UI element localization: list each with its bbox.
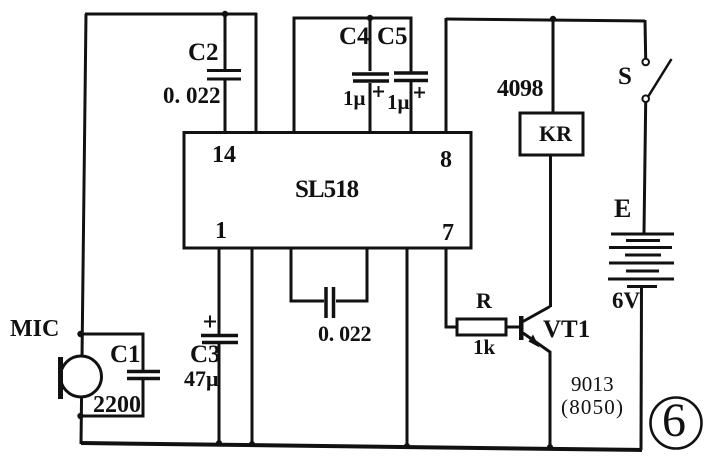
svg-text:6V: 6V: [612, 288, 641, 313]
svg-text:SL518: SL518: [295, 176, 359, 203]
svg-text:1: 1: [215, 218, 227, 244]
svg-text:E: E: [614, 194, 631, 223]
svg-text:VT1: VT1: [543, 316, 590, 343]
svg-text:C3: C3: [190, 341, 221, 368]
svg-text:(8050): (8050): [561, 395, 624, 419]
svg-text:1μ: 1μ: [343, 86, 366, 110]
svg-text:14: 14: [212, 142, 236, 168]
svg-text:C2: C2: [188, 39, 219, 66]
svg-text:KR: KR: [539, 121, 573, 146]
svg-text:9013: 9013: [571, 372, 614, 396]
svg-text:8: 8: [440, 147, 452, 173]
svg-text:2200: 2200: [93, 392, 141, 418]
svg-text:S: S: [618, 63, 632, 90]
svg-text:47μ: 47μ: [184, 366, 219, 391]
svg-text:C5: C5: [377, 23, 408, 50]
svg-text:6: 6: [662, 394, 686, 447]
svg-text:1k: 1k: [473, 335, 496, 359]
svg-text:R: R: [476, 288, 493, 313]
svg-text:MIC: MIC: [10, 316, 59, 342]
svg-text:C4: C4: [339, 23, 370, 50]
svg-text:7: 7: [442, 220, 454, 246]
svg-text:C1: C1: [110, 341, 141, 368]
svg-text:4098: 4098: [497, 76, 544, 102]
svg-text:1μ: 1μ: [387, 90, 410, 114]
svg-text:0. 022: 0. 022: [318, 321, 372, 346]
svg-text:0. 022: 0. 022: [163, 83, 221, 108]
